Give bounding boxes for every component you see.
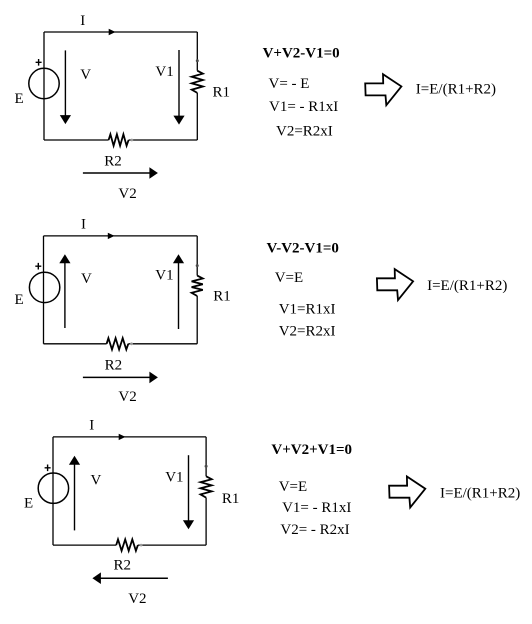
wire top — [44, 235, 198, 237]
wire right upper — [196, 236, 198, 276]
svg-text:V: V — [81, 271, 92, 287]
svg-text:I=E/(R1+R2): I=E/(R1+R2) — [440, 486, 520, 502]
svg-text:R2: R2 — [104, 153, 122, 169]
resistor R1 — [201, 476, 212, 497]
junction dot right of R2 — [130, 342, 133, 345]
svg-text:I: I — [80, 13, 85, 29]
voltage arrow V2 — [83, 172, 150, 174]
svg-text:R2: R2 — [105, 358, 123, 374]
wire top — [44, 31, 197, 33]
resistor R1 — [192, 276, 203, 296]
source polarity plus sign — [35, 263, 41, 270]
svg-text:E: E — [15, 292, 24, 308]
implication block arrow — [377, 269, 413, 300]
resistor R1 — [192, 71, 203, 93]
svg-text:V=E: V=E — [275, 270, 303, 286]
circuit 2: series loop with source E, R1, R2 (V, V1 upward) — [15, 217, 231, 405]
source polarity plus sign — [45, 465, 51, 472]
wire bottom right — [129, 139, 198, 141]
svg-text:V1: V1 — [155, 64, 173, 80]
svg-text:R1: R1 — [222, 491, 240, 507]
source polarity plus sign — [36, 59, 42, 66]
svg-text:V2=R2xI: V2=R2xI — [279, 323, 336, 339]
svg-text:V1: V1 — [155, 268, 173, 284]
svg-text:V2= - R2xI: V2= - R2xI — [280, 522, 349, 538]
current arrow I on top wire — [109, 29, 116, 35]
circuit 1 equations — [263, 46, 496, 140]
wire left — [52, 437, 54, 545]
circuit 1: series loop with source E, R1, R2 (V, V1 downward) — [15, 13, 231, 202]
resistor R2 — [116, 539, 138, 550]
resistor R2 — [107, 338, 129, 349]
svg-text:I: I — [81, 217, 86, 233]
circuit 3 equations — [271, 442, 520, 538]
voltage source E (circle) — [38, 473, 68, 503]
wire bottom left — [44, 343, 107, 345]
voltage arrow V1 — [178, 262, 180, 329]
svg-text:V: V — [91, 473, 102, 489]
voltage arrow V1 — [188, 455, 190, 521]
svg-text:V2: V2 — [118, 389, 136, 405]
svg-text:E: E — [15, 91, 24, 107]
svg-text:V=E: V=E — [279, 479, 307, 495]
voltage arrow V — [74, 464, 76, 531]
wire right upper — [205, 437, 207, 476]
wire right lower — [196, 93, 198, 140]
implication block arrow — [365, 74, 401, 105]
svg-text:I=E/(R1+R2): I=E/(R1+R2) — [416, 82, 496, 98]
wire left — [43, 32, 45, 140]
wire right upper — [196, 32, 198, 71]
resistor R2 — [109, 134, 129, 145]
svg-text:R1: R1 — [213, 84, 231, 100]
svg-text:I=E/(R1+R2): I=E/(R1+R2) — [427, 278, 507, 294]
junction dot right of R2 — [140, 544, 143, 547]
svg-text:V-V2-V1=0: V-V2-V1=0 — [267, 241, 339, 257]
svg-text:V1= - R1xI: V1= - R1xI — [269, 99, 338, 115]
svg-text:V2: V2 — [128, 591, 146, 607]
voltage source E (circle) — [29, 272, 59, 302]
svg-text:V2=R2xI: V2=R2xI — [276, 124, 333, 140]
current arrow I on top wire — [108, 233, 115, 239]
junction dot above R1 — [196, 264, 199, 267]
svg-text:R2: R2 — [114, 558, 132, 574]
svg-text:V: V — [80, 67, 91, 83]
current arrow I on top wire — [119, 434, 126, 440]
svg-text:V1= - R1xI: V1= - R1xI — [282, 500, 351, 516]
wire bottom right — [128, 343, 197, 345]
voltage arrow V2 — [83, 376, 150, 378]
implication block arrow — [389, 477, 425, 508]
junction dot right of R2 — [130, 139, 133, 142]
junction dot above R1 — [196, 59, 199, 62]
svg-text:V+V2-V1=0: V+V2-V1=0 — [263, 46, 340, 62]
voltage arrow V — [64, 263, 66, 329]
voltage source E (circle) — [29, 68, 59, 98]
svg-text:V1: V1 — [165, 469, 183, 485]
svg-text:V1=R1xI: V1=R1xI — [279, 302, 336, 318]
wire left — [43, 236, 45, 344]
svg-text:V= - E: V= - E — [269, 76, 310, 92]
wire bottom left — [44, 139, 109, 141]
svg-text:V+V2+V1=0: V+V2+V1=0 — [271, 442, 352, 458]
circuit 2 equations — [267, 241, 508, 340]
wire right lower — [205, 498, 207, 545]
wire bottom right — [138, 544, 206, 546]
voltage arrow V2 — [100, 577, 167, 579]
svg-text:E: E — [24, 495, 33, 511]
voltage arrow V — [64, 50, 66, 116]
circuit 3: series loop with source E, R1, R2 (V up, V1 down, V2 left) — [24, 417, 239, 607]
voltage arrow V1 — [178, 50, 180, 116]
wire right lower — [196, 296, 198, 344]
svg-text:V2: V2 — [118, 186, 136, 202]
svg-text:I: I — [89, 417, 94, 433]
svg-text:R1: R1 — [213, 289, 231, 305]
junction dot above R1 — [205, 465, 208, 468]
wire bottom left — [53, 544, 116, 546]
wire top — [53, 436, 206, 438]
